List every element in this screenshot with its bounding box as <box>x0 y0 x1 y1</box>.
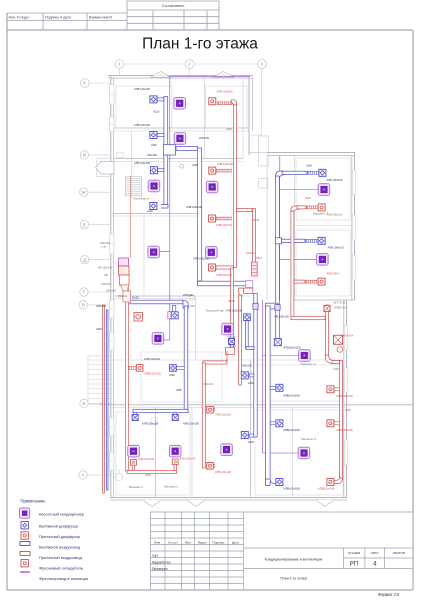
supply diffuser (212,267) <box>209 264 216 271</box>
cassette air conditioner (158,338) <box>152 333 164 345</box>
jog box to lower-wing duct <box>266 303 279 309</box>
svg-text:100х50: 100х50 <box>246 251 255 255</box>
elbow at diffuser 204 <box>161 205 168 209</box>
svg-text:Согласовано: Согласовано <box>162 4 185 8</box>
supply duct vertical x240 <box>239 295 242 385</box>
cassette air conditioner (304,453) <box>298 447 310 459</box>
elbow at top of right wing riser <box>276 171 284 179</box>
supply diffuser (140,368) <box>136 365 143 372</box>
axis column 1 circle <box>115 60 124 69</box>
exhaust diffuser (245,435) <box>241 432 248 439</box>
supply duct horizontal y362 <box>203 361 227 364</box>
cassette air conditioner shop2 (175,451) <box>169 445 181 457</box>
svg-text:Г: Г <box>83 290 86 296</box>
cassette air conditioner (154,252) <box>148 246 160 257</box>
svg-text:Магазин- 5: Магазин- 5 <box>301 437 316 441</box>
elbow into bottom wing <box>325 355 334 364</box>
exhaust diffuser (153,99) <box>150 96 157 103</box>
flexible connector room 4 <box>216 217 232 220</box>
svg-text:2 шт: 2 шт <box>101 245 107 249</box>
supply diffuser (212,101) <box>209 98 216 105</box>
svg-text:ЛИСТОВ: ЛИСТОВ <box>393 551 405 555</box>
supply diffuser right wing (322,207) <box>318 204 325 211</box>
svg-text:АПВ(100х100): АПВ(100х100) <box>283 487 300 491</box>
axis В leader <box>88 304 111 306</box>
freon stub to AC K8 <box>280 258 317 260</box>
entrance canopy arrow <box>96 162 115 175</box>
axis row Е circle <box>80 221 88 229</box>
supply air-handling unit cluster near left wall <box>119 258 131 302</box>
svg-text:d100: d100 <box>345 408 351 412</box>
svg-text:АПВ 100х100: АПВ 100х100 <box>327 213 344 217</box>
svg-text:d100: d100 <box>192 163 198 167</box>
outer wall: bottom <box>110 497 347 499</box>
cassette air conditioner (180,103) <box>174 98 186 110</box>
right wing interior walls <box>293 156 295 301</box>
svg-text:Дата: Дата <box>232 540 239 544</box>
freon stub to AC K5 <box>160 251 170 253</box>
svg-text:АПВ 100х?: АПВ 100х? <box>327 272 341 276</box>
exhaust branch y173 <box>282 171 307 174</box>
freon stub to AC K7 <box>280 189 319 191</box>
svg-text:Магазин 2: Магазин 2 <box>164 485 178 489</box>
svg-text:d100: d100 <box>226 127 232 131</box>
supply duct vertical x292 right wing <box>291 211 294 317</box>
axis row И circle <box>80 151 88 159</box>
supply diffuser (210,410) <box>207 406 214 413</box>
svg-text:АПВ 100х100: АПВ 100х100 <box>183 422 200 426</box>
inner room outline boxes <box>116 86 172 128</box>
svg-text:СТАДИЯ: СТАДИЯ <box>348 551 360 555</box>
elbow at top <box>291 206 299 211</box>
wall x195 Торговый зал left <box>194 296 196 360</box>
svg-text:АПВ 100х100: АПВ 100х100 <box>138 457 155 461</box>
svg-text:d100: d100 <box>147 209 153 213</box>
svg-text:АПВ 100х100: АПВ 100х100 <box>217 162 234 166</box>
axis line 1-2 <box>124 63 185 65</box>
svg-text:И: И <box>83 153 87 159</box>
svg-text:2 шт: 2 шт <box>229 339 235 343</box>
right wing: right outer wall <box>354 153 356 301</box>
axis row К circle <box>80 79 89 88</box>
svg-text:АПВ(100х100): АПВ(100х100) <box>283 394 300 398</box>
exhaust riser x186 down to shops <box>184 306 188 412</box>
interior wall y128 (below top room row) <box>114 127 250 129</box>
flex from riser to red diffuser (140,368) <box>129 367 137 370</box>
stubs to shop exhaust valves <box>134 413 137 416</box>
flexible connector to diffuser shop2 <box>207 408 215 411</box>
exhaust diffuser right wing (322,173) <box>319 169 326 176</box>
axis column 2 circle <box>185 60 194 69</box>
axis row В circle <box>79 301 87 309</box>
axis row Г circle <box>80 288 88 296</box>
svg-text:Кассетный кондиционер: Кассетный кондиционер <box>39 512 85 517</box>
supply branch y267 to diffuser <box>216 266 233 269</box>
svg-text:50х25: 50х25 <box>228 299 236 303</box>
supply duct horizontal y472 (shops 1-2) <box>127 471 177 474</box>
cassette air conditioner shop1 (134,451) <box>128 445 140 457</box>
interior wall y296 (Торговый зал top) <box>114 295 196 297</box>
svg-text:d100: d100 <box>248 440 254 444</box>
svg-text:АПВ 100х100: АПВ 100х100 <box>142 422 159 426</box>
exhaust diffuser (153,135) <box>150 132 157 139</box>
drawing frame <box>7 29 413 31</box>
legend: cassette AC icon <box>20 508 30 518</box>
exhaust diffuser right wing (322,241) <box>318 237 325 244</box>
supply riser x204 shops right <box>202 363 205 468</box>
svg-text:50х25: 50х25 <box>229 344 237 348</box>
svg-text:150х06: 150х06 <box>227 335 236 339</box>
supply riser x127 <box>126 287 129 471</box>
legend: supply diffuser icon <box>21 532 28 539</box>
damper on supply riser <box>324 305 330 311</box>
svg-text:Е: Е <box>83 222 86 228</box>
exhaust riser along left wall x107 <box>106 310 108 490</box>
freon pipe down right wing x279.5 <box>279 156 281 172</box>
roof hatch triangle right <box>213 72 234 78</box>
cassette air conditioner right wing (322,259) <box>317 254 329 266</box>
svg-text:Лестничная кл.: Лестничная кл. <box>133 198 150 201</box>
svg-text:50х25: 50х25 <box>132 297 139 300</box>
svg-text:Кондиционирование и вентиляция: Кондиционирование и вентиляция <box>265 558 323 562</box>
svg-text:АПВ(100х100): АПВ(100х100) <box>336 428 353 432</box>
svg-text:Примечание:: Примечание: <box>21 499 46 504</box>
exhaust diffuser (247,317) <box>244 314 251 321</box>
stairwell lower-left <box>88 356 111 404</box>
outer wall: top of left wing <box>108 75 253 77</box>
approval table (Согласовано) <box>127 0 219 2</box>
svg-text:3: 3 <box>261 62 264 68</box>
svg-text:30х25: 30х25 <box>252 218 260 222</box>
title block (GOST stamp) <box>151 512 414 590</box>
svg-text:d100: d100 <box>248 381 254 385</box>
transition boxes <box>226 348 235 355</box>
cassette air conditioner (211,252) <box>206 247 218 259</box>
blue flexible connector <box>308 171 320 174</box>
axis А leader <box>87 474 110 476</box>
svg-text:Формат А3: Формат А3 <box>378 592 400 597</box>
svg-text:АПВ 100х100: АПВ 100х100 <box>328 246 345 250</box>
svg-text:d160: d160 <box>176 388 182 392</box>
axis Б leader <box>88 402 110 404</box>
supply duct vertical x327 <box>326 305 329 357</box>
duct stubs to diffusers <box>157 98 164 101</box>
exhaust plenum widening <box>164 145 176 156</box>
svg-text:250х100: 250х100 <box>203 382 214 386</box>
shop exhaust duct horizontal y411 <box>133 409 188 412</box>
flexible connector top room <box>217 102 231 105</box>
heater unit on x254 <box>252 262 258 276</box>
shop2 exhaust valve <box>172 415 178 421</box>
legend: exhaust duct icon <box>20 542 30 546</box>
svg-text:250х100: 250х100 <box>106 289 117 293</box>
svg-text:Изм.: Изм. <box>154 540 161 544</box>
cassette air conditioner (212,187) <box>206 181 218 193</box>
axis column 3 circle <box>258 60 267 69</box>
flexible connector to diffuser shop3 <box>207 464 215 467</box>
interior wall y159 <box>114 158 244 160</box>
svg-text:Разработал: Разработал <box>152 560 170 564</box>
svg-text:ЛИСТ: ЛИСТ <box>371 551 379 555</box>
svg-text:АПВ(100х100): АПВ(100х100) <box>144 372 161 376</box>
interior wall: axis Б horizontal y405 <box>100 404 413 406</box>
legend: exhaust diffuser icon <box>21 522 28 529</box>
svg-text:Взамен инв.N: Взамен инв.N <box>89 16 112 20</box>
elbow turning down at x186 <box>183 300 188 308</box>
exhaust duct riser x165 rooms 1-3 <box>164 97 168 206</box>
svg-text:d100: d100 <box>306 164 312 168</box>
supply diffuser (330,389) <box>327 386 334 393</box>
svg-text:d100: d100 <box>96 327 102 331</box>
stair wall x131.5 <box>131 131 133 198</box>
lower wing exhaust main x268 <box>266 306 271 486</box>
top-left stamp table <box>7 12 127 14</box>
shop1 exhaust valve <box>132 415 138 421</box>
supply diffuser (212,218) <box>209 215 216 222</box>
exhaust duct horizontal y302 <box>130 300 183 304</box>
svg-text:АПВ 100х100: АПВ 100х100 <box>186 205 203 209</box>
svg-text:АПВ 100х100: АПВ 100х100 <box>327 178 344 182</box>
svg-text:Кол.уч: Кол.уч <box>168 540 178 544</box>
right wing exhaust riser x277 <box>276 176 280 339</box>
svg-text:К: К <box>83 81 86 87</box>
svg-text:250х100: 250х100 <box>199 136 210 140</box>
svg-text:АПВ 100х100: АПВ 100х100 <box>216 273 233 277</box>
svg-text:РП: РП <box>350 561 359 568</box>
red grilles under shop ACs <box>131 460 137 466</box>
axis row А circle <box>79 471 87 479</box>
axis И leader <box>89 154 110 156</box>
svg-text:ПВ: ПВ <box>104 273 108 277</box>
windows on left wall <box>110 85 114 105</box>
red flexible connector <box>306 280 319 283</box>
svg-text:АПВ 100х100: АПВ 100х100 <box>226 309 243 313</box>
svg-text:АПВ 100х100: АПВ 100х100 <box>134 87 151 91</box>
svg-text:АПВ(100х100): АПВ(100х100) <box>318 487 335 491</box>
svg-text:d100: d100 <box>305 196 311 200</box>
wall: right side of left wing (axis 3) <box>248 76 250 156</box>
svg-text:АПВ 100х100: АПВ 100х100 <box>144 357 161 361</box>
svg-text:1: 1 <box>118 62 121 68</box>
red elbow to vertical x240 <box>238 288 244 296</box>
svg-text:Фреонопровод в изоляции: Фреонопровод в изоляции <box>39 576 88 581</box>
svg-text:250х100: 250х100 <box>101 282 112 286</box>
cassette air conditioner (304,355) <box>299 350 311 362</box>
svg-text:АПВ(100х100): АПВ(100х100) <box>336 394 353 398</box>
exhaust diffuser (279,423) <box>276 420 283 427</box>
supply riser along left wall x103 <box>103 305 105 493</box>
svg-text:d100: d100 <box>169 373 175 377</box>
svg-text:АПВ(100х100): АПВ(100х100) <box>284 346 301 350</box>
svg-text:АПВ(100х100): АПВ(100х100) <box>283 428 300 432</box>
main exhaust duct horizontal y283 <box>198 281 250 286</box>
svg-text:d100: d100 <box>190 305 196 308</box>
exhaust diffuser (279,482) <box>276 479 283 486</box>
outer wall: left side <box>110 76 112 498</box>
svg-text:Приточный воздуховод: Приточный воздуховод <box>39 555 83 560</box>
svg-text:В: В <box>82 303 85 309</box>
svg-text:Вытяжной воздуховод: Вытяжной воздуховод <box>39 545 81 550</box>
svg-text:План 1-го этажа: План 1-го этажа <box>142 36 258 53</box>
svg-text:АПВ 100х100: АПВ 100х100 <box>193 257 210 261</box>
svg-text:250х150: 250х150 <box>147 153 158 157</box>
legend: freon pipe icon <box>20 571 30 573</box>
svg-text:АПВ 100х100: АПВ 100х100 <box>134 123 151 127</box>
exhaust diffuser (173,368) <box>170 365 177 372</box>
axis 1 leader <box>119 68 121 76</box>
svg-text:4: 4 <box>373 561 377 568</box>
svg-text:АПВ 100х100: АПВ 100х100 <box>180 457 197 461</box>
svg-text:Ж: Ж <box>82 190 87 196</box>
damper on x255 <box>253 303 258 309</box>
exhaust diffuser (175,315) <box>171 312 178 319</box>
blue flexible connector <box>306 239 319 242</box>
svg-text:Подпись: Подпись <box>212 540 225 544</box>
main exhaust duct vertical x199 <box>197 148 201 281</box>
entrance door marks on bottom wall <box>143 500 161 507</box>
svg-text:300х150: 300х150 <box>242 364 253 368</box>
svg-text:ГиП: ГиП <box>152 554 159 558</box>
red flexible connector <box>307 206 319 209</box>
damper on stub to diffuser (174,315) <box>172 305 175 312</box>
damper near Торговый зал AC <box>229 339 235 345</box>
cassette air conditioner (180,138) <box>174 133 186 145</box>
axis row Д circle <box>81 256 89 264</box>
column at axis 3 wing corner <box>258 136 268 166</box>
supply duct vertical x235 <box>234 103 237 268</box>
exhaust duct horizontal y148 <box>176 147 198 151</box>
svg-text:Вытяжной диффузор: Вытяжной диффузор <box>39 524 79 529</box>
supply duct vertical x341 lower wing <box>340 361 343 479</box>
bottom elbow to diffuser (279,482) <box>266 479 277 484</box>
cassette air conditioner (154,186) <box>148 180 160 192</box>
transition at end of main horizontal <box>246 281 253 288</box>
stubs to lower diffusers on x268 <box>270 386 276 389</box>
svg-text:Магазин- 4: Магазин- 4 <box>300 362 315 366</box>
supply duct horizontal y318 <box>291 316 325 319</box>
svg-text:ВНО8ХХХ: ВНО8ХХХ <box>342 335 354 338</box>
svg-text:Лист: Лист <box>185 540 192 544</box>
svg-text:АПВ 100х100: АПВ 100х100 <box>217 90 234 94</box>
axis 3 line <box>261 68 263 158</box>
red elbows down to duct y472 <box>132 465 134 471</box>
interior vertical wall x204.5 top rooms <box>204 78 206 159</box>
exhaust diffuser (245,375) <box>241 372 248 379</box>
windows on right wing walls <box>352 170 355 195</box>
supply diffuser (330,423) <box>327 420 334 427</box>
svg-text:АПВ 100х100: АПВ 100х100 <box>134 161 151 165</box>
bottom elbow to diffuser (330,482) <box>334 478 342 484</box>
svg-text:300х150: 300х150 <box>100 241 111 245</box>
axis row Ж circle <box>80 188 88 196</box>
axis К leader <box>89 82 110 84</box>
axis Ж leader <box>88 191 110 193</box>
svg-text:АПВ 100х100: АПВ 100х100 <box>215 413 232 417</box>
fire damper on riser <box>274 339 281 346</box>
svg-text:d125: d125 <box>154 110 160 114</box>
axis Д leader <box>89 259 110 261</box>
freon stub to AC K6 <box>164 339 170 341</box>
freon pipe to lower wing ACs <box>262 300 264 453</box>
svg-text:Торговый зал: Торговый зал <box>206 309 225 313</box>
svg-text:Подпись и дата: Подпись и дата <box>45 16 71 20</box>
svg-text:Инв. N подл.: Инв. N подл. <box>9 16 30 20</box>
freon cooler <box>334 335 343 344</box>
supply duct vertical x254 upper <box>253 209 256 266</box>
svg-text:Приточный диффузор: Приточный диффузор <box>39 534 81 539</box>
svg-text:ПВ-2: ПВ-2 <box>256 256 262 260</box>
svg-text:АПВ 100х100: АПВ 100х100 <box>215 470 232 474</box>
svg-text:d160: d160 <box>151 143 157 147</box>
supply diffuser right wing (322,282) <box>318 278 325 285</box>
svg-text:300х150: 300х150 <box>96 304 107 308</box>
misc gray boxes <box>117 153 124 158</box>
svg-text:Проверил: Проверил <box>152 567 168 571</box>
svg-text:Магазин 1: Магазин 1 <box>129 485 143 489</box>
damper on right wing riser <box>275 305 280 311</box>
axis row Б circle <box>80 399 88 407</box>
roof hatch triangle left <box>151 72 171 78</box>
svg-text:ОК-Р 05 25: ОК-Р 05 25 <box>333 302 346 305</box>
svg-text:Б: Б <box>82 401 85 407</box>
svg-text:250х100: 250х100 <box>183 293 194 297</box>
svg-text:АПВ(Р) (8): АПВ(Р) (8) <box>334 307 346 310</box>
svg-text:АПВ 100х100: АПВ 100х100 <box>216 223 233 227</box>
exhaust diffuser (153,206) <box>150 203 157 210</box>
exhaust diffuser (279,388) <box>276 384 283 391</box>
cassette air conditioner (228,329) <box>222 323 234 335</box>
svg-text:МК 150х100: МК 150х100 <box>98 266 113 270</box>
column below wing corner <box>259 179 268 189</box>
supply duct vertical x232 mid <box>231 268 234 350</box>
shop divider walls <box>155 407 157 497</box>
legend: supply duct icon <box>20 552 30 556</box>
svg-text:ПВ 100х100: ПВ 100х100 <box>275 315 290 319</box>
svg-text:План 1-го этажа: План 1-го этажа <box>280 577 307 581</box>
svg-text:№док: №док <box>198 540 207 544</box>
svg-text:2: 2 <box>188 62 191 68</box>
svg-text:Фреоновый охладитель: Фреоновый охладитель <box>39 566 83 571</box>
axis Г leader <box>88 291 110 293</box>
axis line 2-3 <box>194 63 258 65</box>
legend: freon cooler icon <box>21 560 28 567</box>
freon pipe along top wall <box>170 75 250 77</box>
svg-text:250х100: 250х100 <box>118 295 128 298</box>
supply diffuser (212,171) <box>209 167 216 174</box>
staircase top-left <box>126 176 142 198</box>
entrance porch left <box>97 158 111 160</box>
supply diffuser (330,482) <box>327 479 334 486</box>
axis Е leader <box>89 224 110 226</box>
cassette air conditioner right wing (324,190) <box>318 184 330 196</box>
svg-text:н600: н600 <box>145 473 151 477</box>
axis 2 leader <box>189 68 191 76</box>
exhaust branch y241 <box>280 239 305 242</box>
svg-text:d100: d100 <box>333 367 339 371</box>
right wing: top wall <box>267 152 355 154</box>
freon pipe riser x169.8 (rooms 1-5) <box>169 76 171 340</box>
cassette air conditioner (226,450) <box>221 444 233 456</box>
blue branch to diffuser (247,317) <box>245 321 248 349</box>
supply fan unit with circle <box>134 313 143 322</box>
exhaust duct vertical x255 lower wing <box>254 294 257 438</box>
branch y210 to second riser <box>237 209 252 212</box>
supply diffuser (210,466) <box>207 463 214 470</box>
stub (173,368) to riser <box>176 367 184 370</box>
freon line along stair wall <box>129 176 131 258</box>
flexible connector room 3 <box>216 169 232 172</box>
exhaust diffuser (154,170) <box>150 167 157 174</box>
